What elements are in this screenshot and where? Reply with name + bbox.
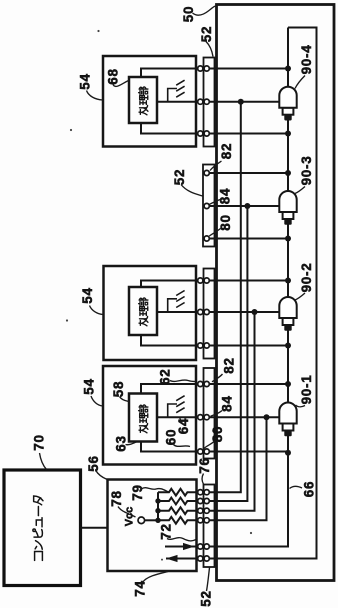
leader to 54 first: [87, 91, 103, 101]
leader to 52 second: [181, 185, 203, 197]
leader to 78: [118, 507, 136, 518]
lamp 90-4: [279, 87, 296, 121]
svg-text:66: 66: [301, 481, 316, 497]
wire unit1 A (top output): [141, 69, 288, 78]
leader to 84 lower: [211, 411, 223, 417]
junction above lamp 90-1: [285, 381, 291, 387]
text shori-bu 2: [139, 298, 148, 326]
svg-text:52: 52: [199, 26, 214, 42]
junction below lamp 90-4: [285, 131, 291, 137]
junction below lamp 90-2: [285, 343, 291, 349]
return wire 66: [207, 28, 317, 559]
junction bus 1 / lamp 90-4 side: [238, 99, 244, 105]
leader to 52 top: [206, 42, 213, 57]
drive wire 1 to lamp 90-4 bus: [198, 102, 241, 493]
wire unit1 B (side contact line): [157, 101, 279, 103]
drive wire 2 to lamp 90-3 bus: [198, 206, 248, 501]
svg-text:90-3: 90-3: [299, 156, 314, 186]
leader to 82: [210, 161, 222, 171]
wire computer to controller: [81, 527, 108, 529]
resistor R1: [158, 489, 198, 496]
svg-text:79: 79: [130, 484, 145, 500]
processing box 63: [129, 394, 157, 442]
wire 84: [207, 205, 280, 207]
unit box 54 (third): [103, 366, 196, 465]
wire unit2 C: [141, 335, 288, 346]
resistor R3: [158, 507, 198, 514]
junction Vcc bus / R2: [155, 498, 160, 503]
wire unit1 C (bottom output): [141, 123, 288, 134]
wire unit3 C: [141, 442, 288, 452]
svg-text:54: 54: [77, 73, 92, 89]
junction bus 2 / lamp 90-3 side: [244, 203, 250, 209]
svg-text:68: 68: [105, 68, 120, 84]
leader to 62: [170, 380, 196, 381]
svg-text:54: 54: [81, 378, 96, 394]
svg-text:72: 72: [159, 523, 174, 539]
wire unit2 A: [141, 281, 288, 288]
svg-text:84: 84: [217, 188, 232, 204]
unit box 54 (second): [104, 266, 197, 360]
svg-text:76: 76: [197, 457, 212, 473]
terminal circles unit2: [198, 278, 203, 283]
leader to 84: [209, 200, 220, 205]
svg-text:54: 54: [80, 287, 95, 303]
junction below lamp 90-1: [285, 450, 291, 456]
lamp 90-3: [279, 191, 296, 225]
svg-text:70: 70: [31, 434, 46, 450]
leader to 80 lower: [204, 441, 215, 449]
arrow in: [166, 558, 197, 560]
Vcc bus: [157, 492, 159, 520]
svg-text:52: 52: [198, 590, 213, 606]
Vcc wire: [145, 519, 158, 521]
leader to 58: [120, 397, 130, 402]
svg-text:60: 60: [163, 429, 178, 445]
Vcc circle: [138, 517, 145, 524]
svg-text:Vcc: Vcc: [124, 507, 136, 527]
junction below lamp 90-3 (net 80): [285, 236, 291, 242]
leader to 68: [113, 81, 129, 87]
ground symbol unit2: [168, 291, 185, 313]
controller connector housing 52: [204, 485, 215, 568]
arrow out 72: [165, 546, 197, 548]
svg-text:63: 63: [113, 435, 128, 451]
leader to 70: [40, 453, 47, 470]
lamp 90-2: [279, 297, 296, 331]
junction Vcc bus / R3: [155, 508, 160, 513]
connector housing (fourth): [204, 368, 215, 459]
junction bus 3 / lamp 90-2 side: [252, 309, 258, 315]
wire unit3 A: [141, 384, 288, 394]
wire 80: [207, 238, 288, 240]
leader to 74: [143, 572, 169, 583]
processing box 68 (shori-bu): [129, 77, 157, 123]
junction above lamp 90-4: [285, 66, 291, 72]
unit box 54 (first): [103, 56, 196, 147]
leader to 63: [126, 442, 137, 445]
svg-text:78: 78: [109, 490, 124, 506]
leader to 54 second: [90, 306, 104, 315]
standalone connector 52 (second): [203, 165, 215, 247]
leader to 80: [209, 229, 220, 237]
terminal circles controller: [198, 490, 203, 495]
wire unit2 B: [157, 311, 279, 313]
leader to 76: [202, 474, 204, 485]
controller box 56: [108, 480, 197, 572]
svg-text:80: 80: [210, 426, 225, 442]
text shori-bu 1: [139, 87, 148, 115]
processing box (second): [129, 287, 157, 335]
leader to 90-4: [295, 76, 305, 89]
svg-text:90-4: 90-4: [299, 45, 314, 75]
svg-text:84: 84: [219, 395, 234, 411]
junction bus 4 / lamp 90-1 side: [264, 414, 270, 420]
ground symbol unit1: [168, 80, 185, 102]
leader to 54 third: [91, 396, 103, 406]
leader to 56: [96, 470, 108, 479]
leader to 90-2: [295, 293, 305, 300]
text shori-bu 3: [139, 405, 148, 433]
junction above lamp 90-2: [285, 278, 291, 284]
svg-text:56: 56: [86, 455, 101, 471]
leader to 90-3: [295, 187, 305, 194]
svg-text:52: 52: [172, 169, 187, 185]
leader to 66: [290, 486, 303, 488]
leader to 90-1: [296, 405, 306, 407]
drive wire 4 to lamp 90-1 bus: [198, 417, 267, 520]
leader to 60: [174, 445, 191, 447]
wire unit3 B: [157, 416, 279, 418]
wire 82: [207, 172, 288, 174]
leader to 82 lower: [212, 374, 223, 382]
svg-text:58: 58: [111, 381, 126, 397]
leader to 64: [180, 418, 182, 423]
drive wire 3 to lamp 90-2 bus: [198, 312, 255, 511]
svg-text:82: 82: [219, 143, 234, 159]
connector housing (third): [204, 269, 215, 359]
specks (scan noise): [97, 30, 99, 32]
svg-text:90-2: 90-2: [299, 263, 314, 293]
svg-text:90-1: 90-1: [299, 375, 314, 405]
terminal circles connector2: [204, 170, 209, 175]
svg-text:62: 62: [157, 368, 172, 384]
spine wire (lamp chain): [207, 28, 288, 547]
junction above lamp 90-3 (net 82): [285, 170, 291, 176]
ground symbol unit3: [168, 396, 185, 418]
terminal circles unit1: [198, 66, 203, 71]
lamp 90-1: [279, 403, 296, 437]
leader to 79: [142, 488, 169, 492]
leader to 50: [193, 6, 216, 15]
computer box 70: [4, 470, 81, 586]
svg-text:74: 74: [132, 580, 147, 596]
leader to 52 bottom: [207, 568, 210, 592]
terminal circles unit3: [198, 381, 203, 386]
junction Vcc bus / R4: [155, 518, 160, 523]
svg-text:82: 82: [221, 357, 236, 373]
resistor R2: [158, 498, 198, 505]
outer rectangle 50 (light string apparatus): [217, 5, 335, 581]
text computer (konpyuta): [33, 496, 43, 560]
resistor R4: [158, 517, 198, 524]
leader to 72 (wavy): [167, 538, 196, 541]
connector housing 52 (first): [204, 58, 215, 147]
